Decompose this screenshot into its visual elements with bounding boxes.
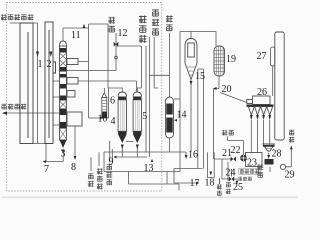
svg-text:28: 28 bbox=[272, 149, 282, 160]
svg-text:15: 15 bbox=[195, 71, 205, 82]
svg-text:13: 13 bbox=[144, 163, 154, 174]
svg-text:2: 2 bbox=[47, 59, 52, 70]
svg-text:3: 3 bbox=[61, 149, 66, 160]
svg-text:11: 11 bbox=[71, 30, 81, 41]
svg-text:1: 1 bbox=[38, 59, 43, 70]
svg-text:16: 16 bbox=[188, 150, 198, 161]
svg-text:24: 24 bbox=[226, 168, 236, 179]
svg-text:20: 20 bbox=[222, 84, 232, 95]
svg-text:27: 27 bbox=[257, 51, 267, 62]
svg-text:5: 5 bbox=[142, 111, 147, 122]
svg-text:6: 6 bbox=[110, 96, 115, 107]
svg-text:4: 4 bbox=[111, 116, 116, 127]
svg-text:7: 7 bbox=[44, 164, 49, 175]
svg-text:22: 22 bbox=[231, 145, 241, 156]
svg-text:29: 29 bbox=[285, 170, 295, 181]
svg-text:18: 18 bbox=[205, 178, 215, 189]
svg-text:14: 14 bbox=[177, 110, 187, 121]
svg-text:12: 12 bbox=[118, 28, 128, 39]
svg-text:17: 17 bbox=[190, 178, 200, 189]
svg-text:26: 26 bbox=[257, 87, 267, 98]
svg-text:8: 8 bbox=[71, 162, 76, 173]
svg-text:10: 10 bbox=[98, 114, 108, 125]
svg-text:23: 23 bbox=[247, 158, 257, 169]
svg-text:19: 19 bbox=[226, 54, 236, 65]
svg-text:25: 25 bbox=[233, 182, 243, 193]
